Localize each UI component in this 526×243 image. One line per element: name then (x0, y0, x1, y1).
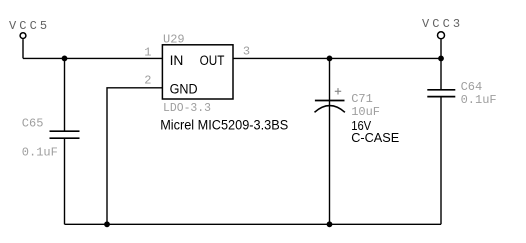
svg-text:OUT: OUT (200, 53, 225, 68)
svg-text:IN: IN (170, 53, 184, 68)
svg-text:3: 3 (243, 45, 250, 59)
svg-text:C-CASE: C-CASE (351, 130, 399, 145)
wire (107, 88, 162, 225)
svg-text:1: 1 (144, 45, 151, 59)
svg-text:0.1uF: 0.1uF (22, 146, 58, 160)
capacitor C71 polarity + (335, 88, 341, 94)
svg-text:C64: C64 (461, 80, 483, 94)
wire (440, 58, 442, 89)
junction (104, 221, 110, 227)
wire (23, 57, 162, 59)
junction (62, 56, 68, 62)
wire (64, 138, 66, 224)
wire (22, 39, 24, 58)
svg-text:VCC3: VCC3 (422, 17, 463, 31)
junction (327, 56, 333, 62)
wire (65, 223, 442, 225)
capacitor C71 (315, 101, 345, 113)
wire (233, 57, 441, 59)
svg-text:C65: C65 (22, 117, 44, 131)
junction (438, 56, 444, 62)
wire (64, 58, 66, 130)
capacitor C65 (50, 131, 80, 138)
capacitor C64 (427, 90, 455, 97)
svg-text:LDO-3.3: LDO-3.3 (163, 101, 211, 115)
power terminal VCC5 (20, 33, 26, 39)
wire (440, 97, 442, 225)
svg-text:Micrel MIC5209-3.3BS: Micrel MIC5209-3.3BS (160, 117, 288, 132)
junction (327, 221, 333, 227)
svg-text:0.1uF: 0.1uF (461, 93, 497, 107)
svg-text:U29: U29 (163, 32, 185, 46)
svg-text:10uF: 10uF (351, 105, 380, 119)
svg-text:GND: GND (170, 81, 198, 96)
wire (329, 58, 331, 224)
svg-text:VCC5: VCC5 (9, 19, 50, 33)
power terminal VCC3 (438, 32, 445, 39)
svg-text:2: 2 (144, 74, 151, 88)
regulator U29 (162, 45, 233, 99)
wire (440, 39, 442, 58)
